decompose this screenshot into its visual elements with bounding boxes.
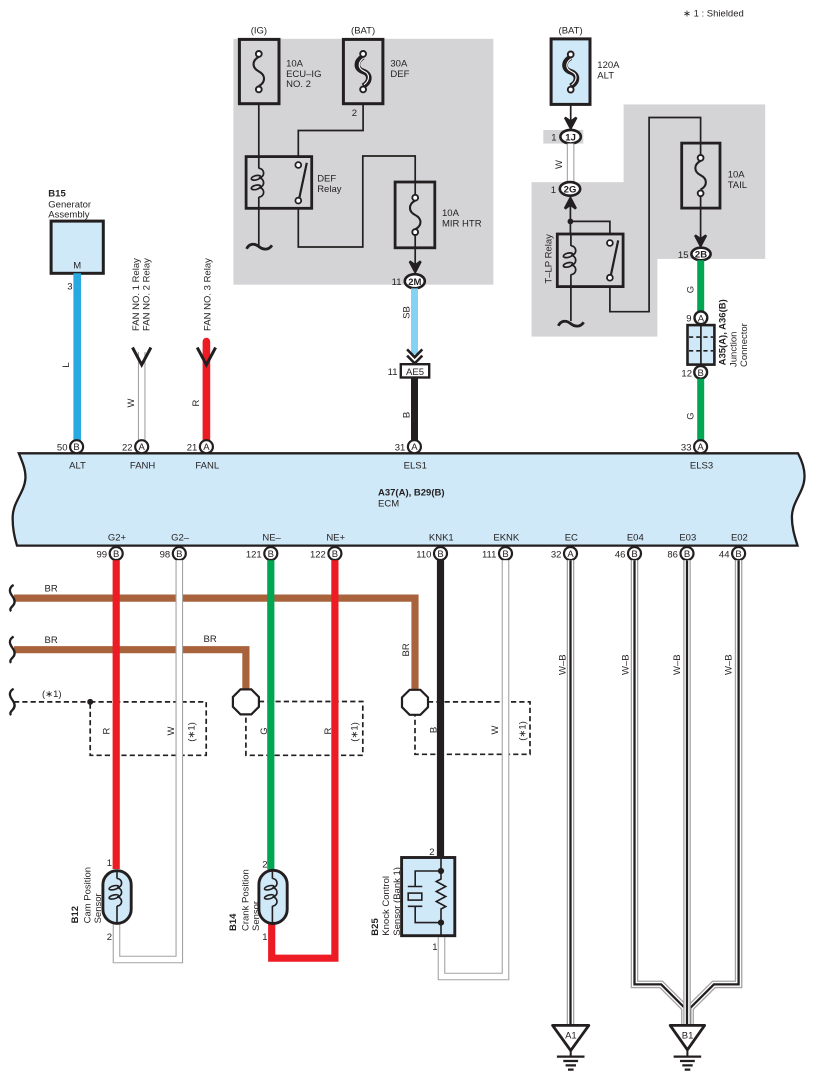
svg-text:G: G (259, 727, 270, 734)
ECM pin 121 B NE- (246, 532, 282, 560)
cam position sensor B12 (70, 858, 131, 943)
svg-text:(IG): (IG) (251, 26, 267, 37)
svg-text:A1: A1 (565, 1030, 577, 1041)
svg-text:B: B (113, 549, 119, 560)
svg-text:A: A (698, 313, 705, 324)
svg-text:(BAT): (BAT) (351, 26, 375, 37)
connector 2M pin 11 (392, 274, 425, 288)
svg-text:G: G (686, 286, 697, 293)
svg-text:SB: SB (402, 306, 413, 319)
svg-text:122: 122 (310, 549, 326, 560)
ECM pin 46 B E04 (615, 532, 644, 560)
TOPLEFT-SECTION (239, 26, 481, 441)
svg-text:12: 12 (681, 368, 692, 379)
wire 2G to T-LP relay coil (569, 196, 571, 234)
wire SB from 2M to junction AE5 (411, 288, 418, 354)
wire BR upper to shield of knock sensor (14, 598, 415, 689)
svg-text:W–B: W–B (621, 654, 632, 675)
arrow into connector 2M (410, 261, 421, 272)
svg-text:B12: B12 (70, 906, 81, 923)
wire R G2+ from ECM to cam sensor (113, 560, 120, 869)
ECM pin 33 A ELS3 (681, 440, 713, 472)
svg-text:86: 86 (667, 549, 678, 560)
svg-text:FAN NO. 2 Relay: FAN NO. 2 Relay (142, 258, 153, 331)
svg-text:W: W (126, 398, 137, 407)
wire G from junction connector to ECM pin ELS3 (697, 379, 704, 441)
shield octagon KNK (402, 690, 428, 715)
svg-text:11: 11 (388, 367, 398, 378)
svg-text:110: 110 (416, 549, 431, 560)
junction connector A35(A),A36(B) (688, 299, 751, 367)
svg-text:44: 44 (719, 549, 730, 560)
fuse 10A ECU-IG NO.2 (239, 26, 321, 104)
junction connector pin 12 B (681, 366, 707, 379)
ECM pin 44 B E02 (719, 532, 748, 560)
ECM pin 98 B G2- (160, 532, 190, 560)
svg-text:Cam Position: Cam Position (83, 867, 94, 924)
svg-text:Relay: Relay (317, 184, 342, 195)
wire W from fan relays to ECM pin FANH (138, 352, 146, 441)
wire W from 1J to 2G (567, 144, 575, 183)
svg-text:NE–: NE– (262, 532, 281, 543)
GENERATOR-SECTION (48, 189, 215, 442)
svg-text:22: 22 (122, 443, 133, 454)
shield box around NE wires (246, 702, 363, 756)
svg-text:EKNK: EKNK (493, 532, 520, 543)
svg-text:9: 9 (686, 314, 691, 325)
svg-text:A37(A), B29(B): A37(A), B29(B) (378, 488, 445, 499)
svg-text:B: B (268, 549, 274, 560)
svg-text:1: 1 (262, 932, 267, 943)
fuse 120A ALT (551, 26, 620, 105)
wire W-B E04 from ECM to ground B1 (621, 560, 685, 1025)
connector 2G pin 1 (551, 182, 580, 196)
wire G from 2B to junction connector (697, 260, 704, 311)
wire T-LP switch to TAIL fuse (610, 118, 701, 312)
svg-text:R: R (191, 399, 202, 406)
svg-text:32: 32 (551, 549, 562, 560)
wire B from AE5 to ECM pin ELS1 (411, 378, 418, 442)
svg-text:BR: BR (45, 584, 58, 595)
shaded relay block background (DEF relay area) (233, 39, 493, 285)
svg-text:W: W (554, 160, 565, 169)
ECM pin 110 B KNK1 (416, 532, 453, 560)
node internal bottom of B25 (438, 920, 444, 926)
ECM pin 86 B E03 (667, 532, 696, 560)
svg-text:BR: BR (401, 643, 412, 656)
svg-text:B: B (402, 412, 413, 418)
relay T-LP Relay (544, 234, 624, 287)
svg-text:EC: EC (565, 532, 578, 543)
wire DEF relay coil to body wave (258, 208, 260, 246)
svg-text:99: 99 (97, 549, 108, 560)
generator assembly B15 (48, 189, 103, 293)
svg-text:B: B (176, 549, 182, 560)
connector 1J pin 1 (551, 130, 581, 144)
shaded patch behind connector 1J (543, 130, 583, 144)
svg-text:NE+: NE+ (326, 532, 345, 543)
node junction above T-LP relay (568, 219, 574, 225)
break symbol shield line (10, 689, 15, 715)
internal wire and resistor of B25 (440, 858, 442, 878)
svg-text:1J: 1J (565, 132, 576, 143)
wire W-B E03 from ECM to ground B1 (672, 560, 687, 1025)
crank position sensor B14 (228, 860, 287, 944)
svg-text:B25: B25 (370, 918, 381, 936)
shield octagon NE (233, 689, 259, 714)
node shield junction (87, 699, 93, 705)
wire W G2- from ECM to cam sensor pin2 (117, 560, 180, 959)
svg-text:G2+: G2+ (108, 532, 127, 543)
wire R from fan relay 3 to ECM pin FANL (203, 342, 211, 442)
svg-text:B14: B14 (228, 913, 239, 931)
shield dashed lead (*1) (14, 701, 90, 703)
svg-text:2: 2 (107, 932, 112, 943)
ECM pin 50 B ALT (57, 440, 86, 472)
svg-text:B: B (684, 549, 690, 560)
svg-text:B: B (429, 727, 440, 733)
svg-text:A: A (697, 442, 704, 453)
svg-text:R: R (102, 727, 113, 734)
wire T-LP coil to body wave (570, 287, 572, 321)
svg-text:W–B: W–B (558, 654, 569, 675)
TOPRIGHT-SECTION (544, 26, 751, 441)
relay DEF Relay (246, 157, 342, 209)
ECM pin 31 A ELS1 (395, 440, 427, 472)
svg-text:1: 1 (107, 858, 112, 869)
wire MIR HTR fuse to connector 2M (414, 234, 416, 266)
LOWER-SECTION (10, 560, 530, 976)
svg-text:50: 50 (57, 443, 68, 454)
svg-text:W–B: W–B (724, 654, 735, 675)
ground B1 (670, 1025, 704, 1069)
arrow chevron from fan relay 3 (197, 348, 215, 365)
svg-text:B: B (502, 549, 508, 560)
svg-text:A35(A), A36(B): A35(A), A36(B) (718, 299, 729, 365)
svg-text:MIR HTR: MIR HTR (442, 218, 482, 229)
wave body-connection below DEF relay coil (247, 244, 272, 249)
svg-text:KNK1: KNK1 (429, 532, 454, 543)
svg-text:Assembly: Assembly (48, 210, 89, 221)
svg-text:2: 2 (352, 108, 357, 119)
arrow chevron from fan relays (133, 348, 151, 365)
svg-text:(∗1): (∗1) (187, 722, 198, 742)
svg-text:FANL: FANL (195, 461, 219, 472)
svg-text:B15: B15 (48, 189, 66, 200)
svg-text:B: B (631, 549, 637, 560)
svg-text:1: 1 (432, 942, 437, 953)
svg-text:A: A (139, 442, 146, 453)
wire TAIL fuse to connector 2B (700, 196, 702, 240)
svg-text:2: 2 (429, 847, 434, 858)
svg-text:ALT: ALT (69, 461, 86, 472)
GRAY-REGIONS (233, 9, 765, 337)
wire W-B E02 from ECM to ground B1 (690, 560, 739, 1025)
svg-text:Crank Position: Crank Position (241, 869, 252, 931)
svg-text:ELS3: ELS3 (690, 461, 713, 472)
knock control sensor B25 (370, 847, 455, 953)
svg-text:T–LP Relay: T–LP Relay (544, 234, 555, 284)
svg-text:R: R (323, 727, 334, 734)
svg-text:M: M (73, 261, 81, 272)
svg-text:FAN NO. 3 Relay: FAN NO. 3 Relay (202, 258, 213, 331)
ECM pin 122 B NE+ (310, 532, 346, 560)
svg-text:AE5: AE5 (406, 367, 424, 378)
svg-text:31: 31 (395, 443, 406, 454)
svg-text:Junction: Junction (729, 332, 740, 367)
node internal top of B25 (438, 868, 444, 874)
svg-text:B: B (735, 549, 741, 560)
svg-text:98: 98 (160, 549, 171, 560)
svg-text:B: B (437, 549, 443, 560)
fuse 30A DEF (343, 26, 409, 119)
svg-text:120A: 120A (597, 60, 620, 71)
wire B KNK1 from ECM to knock sensor pin2 (437, 560, 444, 858)
arrow up into 2G (565, 198, 576, 209)
svg-text:10A: 10A (728, 170, 746, 181)
wire fuse ECU-IG to DEF relay coil (258, 92, 260, 157)
svg-text:FAN NO. 1 Relay: FAN NO. 1 Relay (131, 258, 142, 331)
svg-text:B1: B1 (682, 1030, 694, 1041)
svg-text:2: 2 (262, 860, 267, 871)
ECM-SECTION (13, 440, 805, 560)
wire W-B EC from ECM to ground A1 (558, 560, 571, 1025)
wire R NE+ from ECM to crank sensor pin1 (272, 560, 335, 958)
svg-text:46: 46 (615, 549, 626, 560)
svg-text:W: W (490, 725, 501, 734)
break symbol BR lower (10, 637, 15, 663)
wire BR lower to shield of NE (14, 650, 246, 689)
wire junction to T-LP relay switch (570, 221, 610, 234)
shaded relay block background (TAIL fuse area) (624, 104, 766, 259)
arrow into connector 1J (565, 118, 576, 129)
svg-text:NO. 2: NO. 2 (286, 79, 311, 90)
SENSORS-SECTION (70, 847, 455, 953)
wire G NE- from ECM to crank sensor pin2 (267, 560, 274, 869)
junction AE5 pin 11 (388, 364, 430, 378)
svg-text:B: B (698, 368, 704, 379)
svg-text:2B: 2B (695, 250, 707, 261)
svg-text:E03: E03 (679, 532, 696, 543)
arrow into connector 2B (695, 235, 706, 246)
svg-text:ELS1: ELS1 (404, 461, 427, 472)
svg-text:L: L (61, 362, 72, 367)
svg-text:(∗1): (∗1) (518, 721, 529, 741)
svg-text:G2–: G2– (171, 532, 190, 543)
wire DEF relay switch to MIR HTR fuse (298, 156, 415, 247)
svg-text:FANH: FANH (130, 461, 155, 472)
svg-text:15: 15 (678, 250, 689, 261)
svg-text:A: A (411, 442, 418, 453)
ground A1 (553, 1025, 589, 1069)
svg-text:21: 21 (187, 443, 198, 454)
svg-text:Knock Control: Knock Control (381, 876, 392, 936)
svg-text:1: 1 (551, 185, 556, 196)
ECM pin 111 B EKNK (482, 532, 520, 560)
svg-text:(BAT): (BAT) (559, 26, 583, 37)
svg-text:BR: BR (204, 634, 217, 645)
GROUNDS-SECTION (553, 560, 739, 1069)
shield box around G2 wires (90, 702, 206, 755)
svg-text:2M: 2M (408, 277, 421, 288)
svg-text:E02: E02 (731, 532, 748, 543)
wire L from B15 to ECM pin ALT (73, 273, 81, 441)
svg-text:∗ 1 : Shielded: ∗ 1 : Shielded (683, 9, 744, 20)
svg-text:2G: 2G (564, 185, 577, 196)
ECM A37(A),B29(B) body (13, 453, 805, 545)
svg-text:E04: E04 (627, 532, 644, 543)
ECM pin 99 B G2+ (97, 532, 127, 560)
svg-text:(∗1): (∗1) (349, 722, 360, 742)
svg-text:W: W (166, 726, 177, 735)
svg-text:(∗1): (∗1) (42, 689, 62, 700)
internal capacitor of B25 (408, 871, 441, 923)
svg-text:G: G (686, 412, 697, 419)
svg-text:ALT: ALT (597, 71, 614, 82)
wire 120A ALT fuse to connector 1J (570, 92, 572, 122)
fuse 10A TAIL (682, 143, 747, 208)
svg-text:DEF: DEF (390, 69, 409, 80)
wire DEF fuse pin2 to DEF relay switch (298, 92, 363, 157)
wire W EKNK from ECM to knock sensor pin1 (442, 560, 506, 976)
arrow double chevron into AE5 (407, 349, 422, 364)
break symbol BR upper (10, 585, 15, 611)
svg-text:33: 33 (681, 443, 692, 454)
svg-text:B: B (73, 442, 79, 453)
ECM pin 32 A EC (551, 532, 578, 560)
svg-text:1: 1 (551, 133, 556, 144)
junction connector pin 9 A (686, 311, 707, 324)
svg-text:111: 111 (482, 549, 496, 560)
shield box around KNK wires (415, 702, 530, 754)
ECM pin 21 A FANL (187, 440, 219, 472)
fuse 10A MIR HTR (395, 182, 482, 248)
shaded relay block background (T-LP relay area) (532, 182, 658, 336)
svg-text:Connector: Connector (739, 323, 750, 367)
svg-text:A: A (567, 549, 574, 560)
connector 2B pin 15 (678, 248, 711, 261)
svg-text:121: 121 (246, 549, 262, 560)
svg-text:W–B: W–B (672, 654, 683, 675)
wave body-connection below T-LP relay (558, 321, 583, 326)
svg-text:BR: BR (45, 635, 58, 646)
svg-text:B: B (332, 549, 338, 560)
svg-text:A: A (203, 442, 210, 453)
svg-text:3: 3 (67, 282, 72, 293)
svg-text:TAIL: TAIL (728, 180, 747, 191)
ECM pin 22 A FANH (122, 440, 155, 472)
svg-text:ECM: ECM (378, 499, 399, 510)
svg-text:11: 11 (392, 277, 402, 288)
